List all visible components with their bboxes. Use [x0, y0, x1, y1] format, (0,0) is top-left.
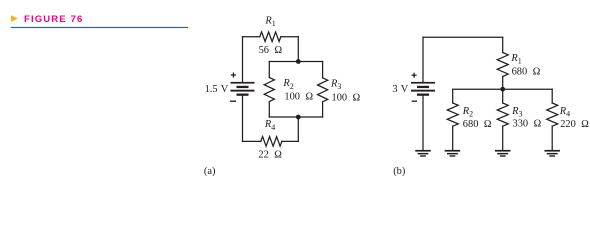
- ground symbol (b) R2: [445, 150, 461, 157]
- svg-text:(a): (a): [204, 166, 216, 177]
- title underline: [11, 27, 188, 28]
- wire: (b) middle rail: [453, 88, 553, 90]
- wire: (b) battery bottom lead to ground: [422, 96, 424, 151]
- svg-text:FIGURE 76: FIGURE 76: [24, 14, 83, 25]
- wire: (a) left branch bottom lead: [268, 102, 270, 118]
- svg-text:680 Ω: 680 Ω: [463, 119, 492, 130]
- node dot (b) junction: [500, 87, 505, 92]
- wire: (b) R2 top lead: [452, 89, 454, 103]
- wire: (a) middle vertical to bottom wire: [297, 117, 299, 141]
- svg-text:R1: R1: [264, 15, 275, 28]
- svg-text:R1: R1: [510, 53, 521, 66]
- wire: (b) R4 bottom lead: [551, 126, 553, 150]
- wire: (a) left vertical lower (battery - to bottom): [242, 96, 244, 142]
- wire: (b) R1 bottom lead to node: [502, 77, 504, 90]
- wire: (b) top horizontal: [423, 36, 503, 38]
- svg-text:22 Ω: 22 Ω: [258, 150, 282, 161]
- wire: (a) right branch top lead: [322, 62, 324, 78]
- resistor R2 (b) zigzag: [447, 103, 458, 126]
- svg-text:3 V: 3 V: [392, 84, 408, 95]
- resistor R2 (a) zigzag: [264, 78, 274, 102]
- node dot (a) top junction: [296, 59, 301, 64]
- resistor R1 (a) zigzag: [260, 32, 281, 42]
- figure pointer triangle: [11, 15, 18, 22]
- ground symbol (b) R3: [495, 150, 511, 157]
- wire: (a) left vertical upper (battery + to top): [242, 37, 244, 82]
- resistor R4 (a) zigzag: [261, 137, 282, 147]
- svg-text:100 Ω: 100 Ω: [284, 91, 313, 102]
- wire: (b) R3 top lead: [502, 89, 504, 103]
- svg-text:R3: R3: [330, 79, 341, 92]
- svg-text:R3: R3: [511, 106, 522, 119]
- wire: (a) top left horizontal: [243, 36, 260, 38]
- minus sign battery (b): [412, 101, 417, 102]
- wire: (a) right vertical from R1 to node: [297, 37, 299, 62]
- wire: (a) bottom right horizontal: [282, 140, 299, 142]
- svg-text:R2: R2: [462, 106, 473, 119]
- svg-text:220 Ω: 220 Ω: [560, 119, 589, 130]
- plus sign battery (a): [231, 72, 236, 77]
- svg-text:100 Ω: 100 Ω: [332, 92, 361, 103]
- battery VS (a) 1.5 V: [231, 82, 255, 96]
- wire: (a) left branch top lead: [268, 62, 270, 78]
- wire: (a) bottom left horizontal: [243, 140, 261, 142]
- svg-text:680 Ω: 680 Ω: [512, 66, 541, 77]
- wire: (b) R3 bottom lead: [502, 126, 504, 150]
- svg-text:R2: R2: [282, 78, 293, 91]
- ground symbol (b) battery: [415, 150, 431, 157]
- resistor R3 (b) zigzag: [497, 103, 508, 126]
- wire: (b) battery top lead: [422, 37, 424, 82]
- wire: (a) parallel top rail: [269, 61, 322, 63]
- resistor R4 (b) zigzag: [547, 103, 558, 126]
- plus sign battery (b): [412, 73, 417, 78]
- wire: (a) right branch bottom lead: [322, 102, 324, 117]
- node dot (a) bottom junction: [296, 115, 301, 120]
- wire: (a) top right horizontal: [281, 36, 299, 38]
- wire: (b) R2 bottom lead: [452, 126, 454, 150]
- svg-text:56 Ω: 56 Ω: [259, 45, 283, 56]
- svg-text:330 Ω: 330 Ω: [513, 118, 542, 129]
- svg-text:R4: R4: [264, 119, 275, 132]
- ground symbol (b) R4: [544, 150, 560, 157]
- resistor R3 (a) zigzag: [318, 78, 328, 102]
- minus sign battery (a): [230, 101, 236, 102]
- wire: (b) R4 top lead: [551, 89, 553, 103]
- svg-text:(b): (b): [393, 166, 405, 177]
- svg-text:1.5 V: 1.5 V: [205, 84, 229, 95]
- wire: (a) parallel bottom rail: [269, 116, 322, 118]
- wire: (b) R1 top lead: [502, 37, 504, 52]
- svg-text:R4: R4: [559, 106, 570, 119]
- resistor R1 (b) zigzag: [497, 53, 508, 77]
- battery VS (b) 3 V: [411, 82, 435, 96]
